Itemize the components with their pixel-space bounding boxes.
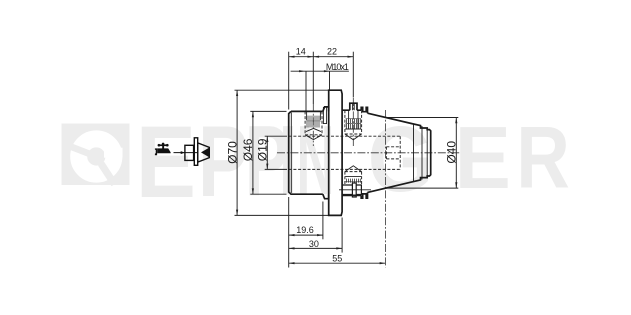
svg-text:R: R	[516, 108, 570, 207]
chamfer edge line	[290, 113, 292, 193]
svg-text:55: 55	[332, 254, 342, 264]
dia40	[455, 118, 457, 124]
cylinder dia46 with chamfered left corners	[289, 111, 323, 194]
thread hole 2 bottom mirror	[344, 172, 346, 185]
thin line style	[235, 52, 459, 268]
dia 40 dim	[386, 117, 458, 119]
ring dia52	[323, 107, 329, 199]
watermark logo block	[62, 124, 130, 187]
svg-text:Ø40: Ø40	[445, 141, 459, 164]
centerlines dash-dot	[277, 98, 460, 268]
svg-text:E: E	[455, 108, 511, 207]
thread hole solid details	[305, 110, 362, 176]
white stylized e in logo	[79, 139, 114, 174]
dimension arrows (filled)	[236, 56, 457, 265]
ring2 with notch	[361, 107, 367, 198]
55	[289, 262, 295, 264]
svg-text:30: 30	[309, 239, 319, 249]
coolant icon: arrow into holder	[174, 151, 198, 154]
svg-text:M10x1: M10x1	[326, 62, 349, 72]
screw head	[350, 103, 357, 110]
bottom dims	[288, 197, 290, 268]
ring1 slot	[323, 107, 326, 124]
19.6	[289, 234, 295, 236]
dim line 14 / 22	[289, 56, 354, 58]
M10x1 leader arrows	[299, 70, 305, 72]
coolant icon: tap	[155, 143, 171, 156]
M10x1 leader	[291, 70, 349, 72]
hole 2 bottom mirror details	[345, 176, 361, 178]
hatch hole 1 : thread tick rows	[306, 116, 321, 128]
svg-text:19.6: 19.6	[296, 225, 314, 235]
hatch hole 2 : thread tick rows	[346, 119, 362, 183]
main outline thick	[289, 90, 431, 215]
hole 1 mouth edges	[306, 111, 308, 120]
hidden (dashed) lines	[289, 110, 401, 184]
svg-text:G: G	[368, 107, 433, 211]
top dim extension lines	[288, 52, 290, 110]
pin	[342, 185, 361, 195]
svg-text:E: E	[136, 105, 196, 219]
dia19	[266, 136, 268, 142]
svg-text:Ø70: Ø70	[225, 141, 239, 164]
svg-text:Ø46: Ø46	[241, 138, 255, 161]
dimension texts	[296, 46, 349, 263]
svg-text:14: 14	[296, 46, 306, 56]
thread hole 1	[304, 111, 306, 134]
cone	[368, 113, 431, 192]
watermark text EPPINGER	[136, 105, 570, 219]
pin axis	[339, 189, 371, 191]
14 / 22 arrows	[289, 56, 295, 58]
hole 2 screw shank	[348, 110, 350, 129]
hub dia48	[342, 110, 361, 195]
coolant icon: tool holder symbol	[185, 138, 209, 166]
dia 70 dim	[235, 89, 329, 91]
bore dia19	[289, 135, 401, 137]
svg-text:Ø19: Ø19	[255, 138, 269, 161]
thread hole 2	[344, 110, 346, 134]
dia 46 dim	[250, 110, 286, 112]
flange dia70	[329, 90, 342, 215]
dia46	[252, 111, 254, 117]
30	[289, 247, 295, 249]
cone edge lines	[414, 124, 428, 182]
svg-text:22: 22	[327, 46, 337, 56]
dia 19 dim	[265, 135, 287, 137]
dia70	[236, 90, 238, 96]
